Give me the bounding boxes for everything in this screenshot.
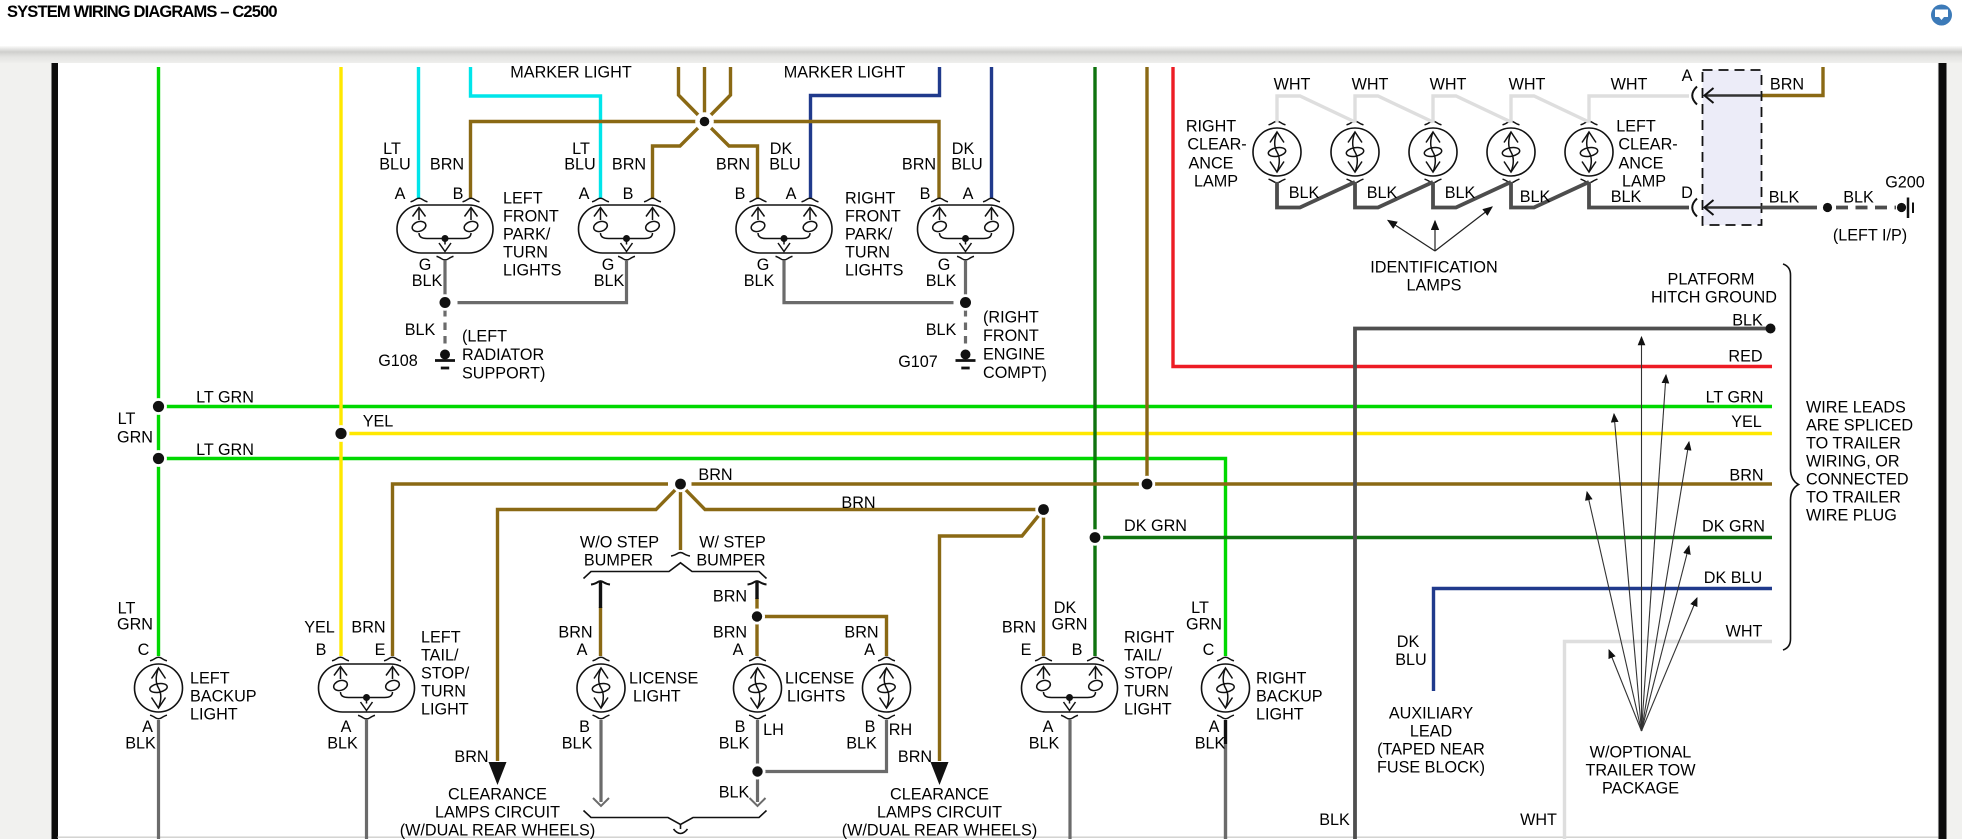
svg-text:G108: G108	[378, 352, 418, 370]
svg-text:LIGHT: LIGHT	[1256, 706, 1304, 724]
svg-text:A: A	[733, 641, 744, 659]
svg-text:C: C	[138, 641, 150, 659]
svg-text:A: A	[1209, 718, 1220, 736]
svg-text:PACKAGE: PACKAGE	[1602, 780, 1679, 798]
svg-text:ANCE: ANCE	[1189, 155, 1234, 173]
svg-text:LEFT: LEFT	[1616, 118, 1656, 136]
svg-text:B: B	[735, 185, 746, 203]
svg-text:W/OPTIONAL: W/OPTIONAL	[1590, 744, 1692, 762]
svg-text:B: B	[920, 185, 931, 203]
svg-text:YEL: YEL	[304, 619, 335, 637]
svg-text:TURN: TURN	[1124, 683, 1169, 701]
svg-text:PLATFORM: PLATFORM	[1668, 271, 1755, 289]
svg-text:C: C	[1203, 641, 1215, 659]
svg-text:BACKUP: BACKUP	[1256, 688, 1323, 706]
svg-text:BRN: BRN	[1770, 76, 1804, 94]
svg-text:BLU: BLU	[379, 156, 411, 174]
svg-text:BRN: BRN	[612, 156, 646, 174]
svg-text:LT GRN: LT GRN	[1706, 389, 1764, 407]
svg-text:A: A	[579, 185, 590, 203]
svg-text:W/ STEP: W/ STEP	[699, 534, 766, 552]
svg-text:TAIL/: TAIL/	[421, 647, 459, 665]
svg-text:(LEFT I/P): (LEFT I/P)	[1833, 227, 1907, 245]
svg-text:A: A	[786, 185, 797, 203]
svg-text:FRONT: FRONT	[503, 208, 559, 226]
svg-text:G200: G200	[1885, 174, 1925, 192]
svg-text:LIGHTS: LIGHTS	[503, 262, 562, 280]
svg-text:A: A	[577, 641, 588, 659]
svg-text:TO TRAILER: TO TRAILER	[1806, 489, 1901, 507]
svg-text:RIGHT: RIGHT	[845, 190, 895, 208]
svg-text:LEAD: LEAD	[1410, 723, 1452, 741]
svg-text:CONNECTED: CONNECTED	[1806, 471, 1909, 489]
svg-text:W/O STEP: W/O STEP	[580, 534, 659, 552]
svg-text:BLK: BLK	[1319, 811, 1350, 829]
svg-text:GRN: GRN	[117, 429, 153, 447]
svg-text:LICENSE: LICENSE	[629, 670, 698, 688]
svg-text:BRN: BRN	[713, 624, 747, 642]
svg-text:LIGHT: LIGHT	[633, 688, 681, 706]
svg-text:SUPPORT): SUPPORT)	[462, 365, 545, 383]
svg-text:PARK/: PARK/	[503, 226, 551, 244]
svg-text:LT: LT	[118, 410, 136, 428]
svg-text:SYSTEM WIRING DIAGRAMS – C2500: SYSTEM WIRING DIAGRAMS – C2500	[7, 3, 277, 21]
svg-text:CLEARANCE: CLEARANCE	[890, 786, 989, 804]
svg-text:LIGHTS: LIGHTS	[845, 262, 904, 280]
svg-text:STOP/: STOP/	[1124, 665, 1173, 683]
svg-text:(TAPED NEAR: (TAPED NEAR	[1377, 741, 1485, 759]
svg-text:LEFT: LEFT	[421, 629, 461, 647]
svg-text:LAMP: LAMP	[1194, 173, 1238, 191]
svg-text:BLK: BLK	[405, 321, 436, 339]
svg-text:BRN: BRN	[698, 466, 732, 484]
svg-text:TURN: TURN	[421, 683, 466, 701]
svg-text:B: B	[316, 641, 327, 659]
svg-text:FRONT: FRONT	[983, 327, 1039, 345]
svg-text:BLK: BLK	[846, 735, 877, 753]
svg-text:RH: RH	[889, 721, 912, 739]
svg-text:GRN: GRN	[1186, 616, 1222, 634]
svg-text:BRN: BRN	[430, 156, 464, 174]
svg-text:BLK: BLK	[1520, 188, 1551, 206]
svg-text:(W/DUAL REAR WHEELS): (W/DUAL REAR WHEELS)	[842, 822, 1037, 839]
svg-text:RIGHT: RIGHT	[1186, 118, 1236, 136]
svg-text:ANCE: ANCE	[1619, 155, 1664, 173]
svg-text:RIGHT: RIGHT	[1256, 670, 1306, 688]
svg-text:BLK: BLK	[926, 272, 957, 290]
svg-text:COMPT): COMPT)	[983, 364, 1047, 382]
svg-text:LH: LH	[763, 721, 784, 739]
svg-text:BLU: BLU	[1395, 651, 1427, 669]
svg-text:WHT: WHT	[1430, 76, 1467, 94]
svg-text:TRAILER TOW: TRAILER TOW	[1585, 762, 1696, 780]
svg-text:CLEAR-: CLEAR-	[1187, 136, 1246, 154]
svg-text:BRN: BRN	[716, 156, 750, 174]
svg-text:BRN: BRN	[713, 588, 747, 606]
svg-text:DK GRN: DK GRN	[1124, 517, 1187, 535]
svg-text:FUSE BLOCK): FUSE BLOCK)	[1377, 759, 1485, 777]
svg-text:BRN: BRN	[841, 494, 875, 512]
svg-text:BLK: BLK	[1769, 189, 1800, 207]
svg-text:LIGHTS: LIGHTS	[787, 688, 846, 706]
svg-text:DK: DK	[1397, 633, 1420, 651]
svg-text:LAMPS CIRCUIT: LAMPS CIRCUIT	[877, 804, 1002, 822]
svg-text:B: B	[453, 185, 464, 203]
svg-text:LIGHT: LIGHT	[190, 706, 238, 724]
svg-text:BRN: BRN	[454, 748, 488, 766]
svg-text:E: E	[1021, 641, 1032, 659]
svg-text:B: B	[623, 185, 634, 203]
svg-text:BUMPER: BUMPER	[584, 552, 653, 570]
svg-text:BLK: BLK	[719, 735, 750, 753]
svg-text:YEL: YEL	[363, 413, 394, 431]
svg-text:LEFT: LEFT	[190, 670, 230, 688]
svg-text:LIGHT: LIGHT	[1124, 701, 1172, 719]
svg-text:GRN: GRN	[117, 616, 153, 634]
svg-text:B: B	[1072, 641, 1083, 659]
svg-text:LIGHT: LIGHT	[421, 701, 469, 719]
svg-text:MARKER LIGHT: MARKER LIGHT	[784, 64, 906, 82]
svg-text:BLK: BLK	[744, 272, 775, 290]
svg-text:BLK: BLK	[1289, 184, 1320, 202]
svg-text:BLK: BLK	[1029, 735, 1060, 753]
svg-text:BRN: BRN	[898, 748, 932, 766]
svg-text:A: A	[963, 185, 974, 203]
svg-text:WHT: WHT	[1726, 623, 1763, 641]
svg-text:BRN: BRN	[558, 624, 592, 642]
svg-text:LAMPS CIRCUIT: LAMPS CIRCUIT	[435, 804, 560, 822]
svg-text:A: A	[395, 185, 406, 203]
svg-text:LT GRN: LT GRN	[196, 389, 254, 407]
svg-text:A: A	[864, 641, 875, 659]
svg-text:BUMPER: BUMPER	[696, 552, 765, 570]
svg-text:ENGINE: ENGINE	[983, 346, 1045, 364]
svg-text:BLK: BLK	[926, 321, 957, 339]
svg-text:BLK: BLK	[719, 784, 750, 802]
svg-text:CLEAR-: CLEAR-	[1618, 136, 1677, 154]
svg-text:BLK: BLK	[594, 272, 625, 290]
svg-text:LEFT: LEFT	[503, 190, 543, 208]
svg-text:LICENSE: LICENSE	[785, 670, 854, 688]
svg-text:LT: LT	[1191, 599, 1209, 617]
svg-text:G107: G107	[898, 353, 938, 371]
svg-text:AUXILIARY: AUXILIARY	[1389, 705, 1473, 723]
svg-text:WHT: WHT	[1611, 76, 1648, 94]
svg-text:GRN: GRN	[1052, 616, 1088, 634]
svg-text:BLU: BLU	[769, 156, 801, 174]
svg-text:IDENTIFICATION: IDENTIFICATION	[1370, 259, 1497, 277]
svg-text:BRN: BRN	[902, 156, 936, 174]
svg-text:RADIATOR: RADIATOR	[462, 346, 544, 364]
svg-text:(W/DUAL REAR WHEELS): (W/DUAL REAR WHEELS)	[400, 822, 595, 839]
svg-text:DK GRN: DK GRN	[1702, 518, 1765, 536]
svg-text:BLK: BLK	[562, 735, 593, 753]
svg-text:RED: RED	[1728, 348, 1762, 366]
svg-text:TURN: TURN	[503, 244, 548, 262]
svg-text:BLK: BLK	[1611, 188, 1642, 206]
svg-text:BLK: BLK	[1367, 184, 1398, 202]
svg-text:B: B	[579, 718, 590, 736]
svg-text:ARE SPLICED: ARE SPLICED	[1806, 417, 1913, 435]
svg-text:WHT: WHT	[1509, 76, 1546, 94]
svg-text:PARK/: PARK/	[845, 226, 893, 244]
svg-text:A: A	[1043, 718, 1054, 736]
svg-text:BLK: BLK	[1445, 184, 1476, 202]
svg-text:BLK: BLK	[1732, 312, 1763, 330]
svg-text:(RIGHT: (RIGHT	[983, 309, 1039, 327]
svg-text:STOP/: STOP/	[421, 665, 470, 683]
svg-text:CLEARANCE: CLEARANCE	[448, 786, 547, 804]
svg-text:TO TRAILER: TO TRAILER	[1806, 435, 1901, 453]
svg-text:RIGHT: RIGHT	[1124, 629, 1174, 647]
svg-text:HITCH GROUND: HITCH GROUND	[1651, 289, 1777, 307]
svg-text:(LEFT: (LEFT	[462, 328, 507, 346]
svg-text:BLK: BLK	[327, 735, 358, 753]
svg-text:YEL: YEL	[1731, 413, 1762, 431]
svg-text:BRN: BRN	[844, 624, 878, 642]
svg-text:LAMPS: LAMPS	[1407, 277, 1462, 295]
svg-text:BRN: BRN	[1002, 619, 1036, 637]
svg-text:WHT: WHT	[1352, 76, 1389, 94]
svg-text:A: A	[341, 718, 352, 736]
svg-text:D: D	[1681, 184, 1693, 202]
svg-text:A: A	[1682, 67, 1693, 85]
svg-text:BRN: BRN	[351, 619, 385, 637]
svg-text:WIRE LEADS: WIRE LEADS	[1806, 399, 1906, 417]
svg-text:WIRING, OR: WIRING, OR	[1806, 453, 1900, 471]
svg-text:WHT: WHT	[1274, 76, 1311, 94]
svg-text:E: E	[375, 641, 386, 659]
svg-text:A: A	[142, 718, 153, 736]
svg-text:BLU: BLU	[951, 156, 983, 174]
svg-text:B: B	[735, 718, 746, 736]
svg-text:FRONT: FRONT	[845, 208, 901, 226]
svg-text:WHT: WHT	[1520, 811, 1557, 829]
svg-text:TURN: TURN	[845, 244, 890, 262]
svg-text:TAIL/: TAIL/	[1124, 647, 1162, 665]
svg-text:BLU: BLU	[564, 156, 596, 174]
svg-text:BLK: BLK	[125, 735, 156, 753]
svg-text:BLK: BLK	[1843, 189, 1874, 207]
svg-text:BLK: BLK	[412, 272, 443, 290]
svg-text:DK BLU: DK BLU	[1704, 569, 1762, 587]
svg-text:DK: DK	[1054, 599, 1077, 617]
svg-text:BACKUP: BACKUP	[190, 688, 257, 706]
svg-text:B: B	[865, 718, 876, 736]
svg-text:WIRE PLUG: WIRE PLUG	[1806, 507, 1897, 525]
svg-text:MARKER LIGHT: MARKER LIGHT	[510, 64, 632, 82]
svg-text:LT GRN: LT GRN	[196, 441, 254, 459]
svg-text:BRN: BRN	[1729, 467, 1763, 485]
svg-text:BLK: BLK	[1195, 735, 1226, 753]
